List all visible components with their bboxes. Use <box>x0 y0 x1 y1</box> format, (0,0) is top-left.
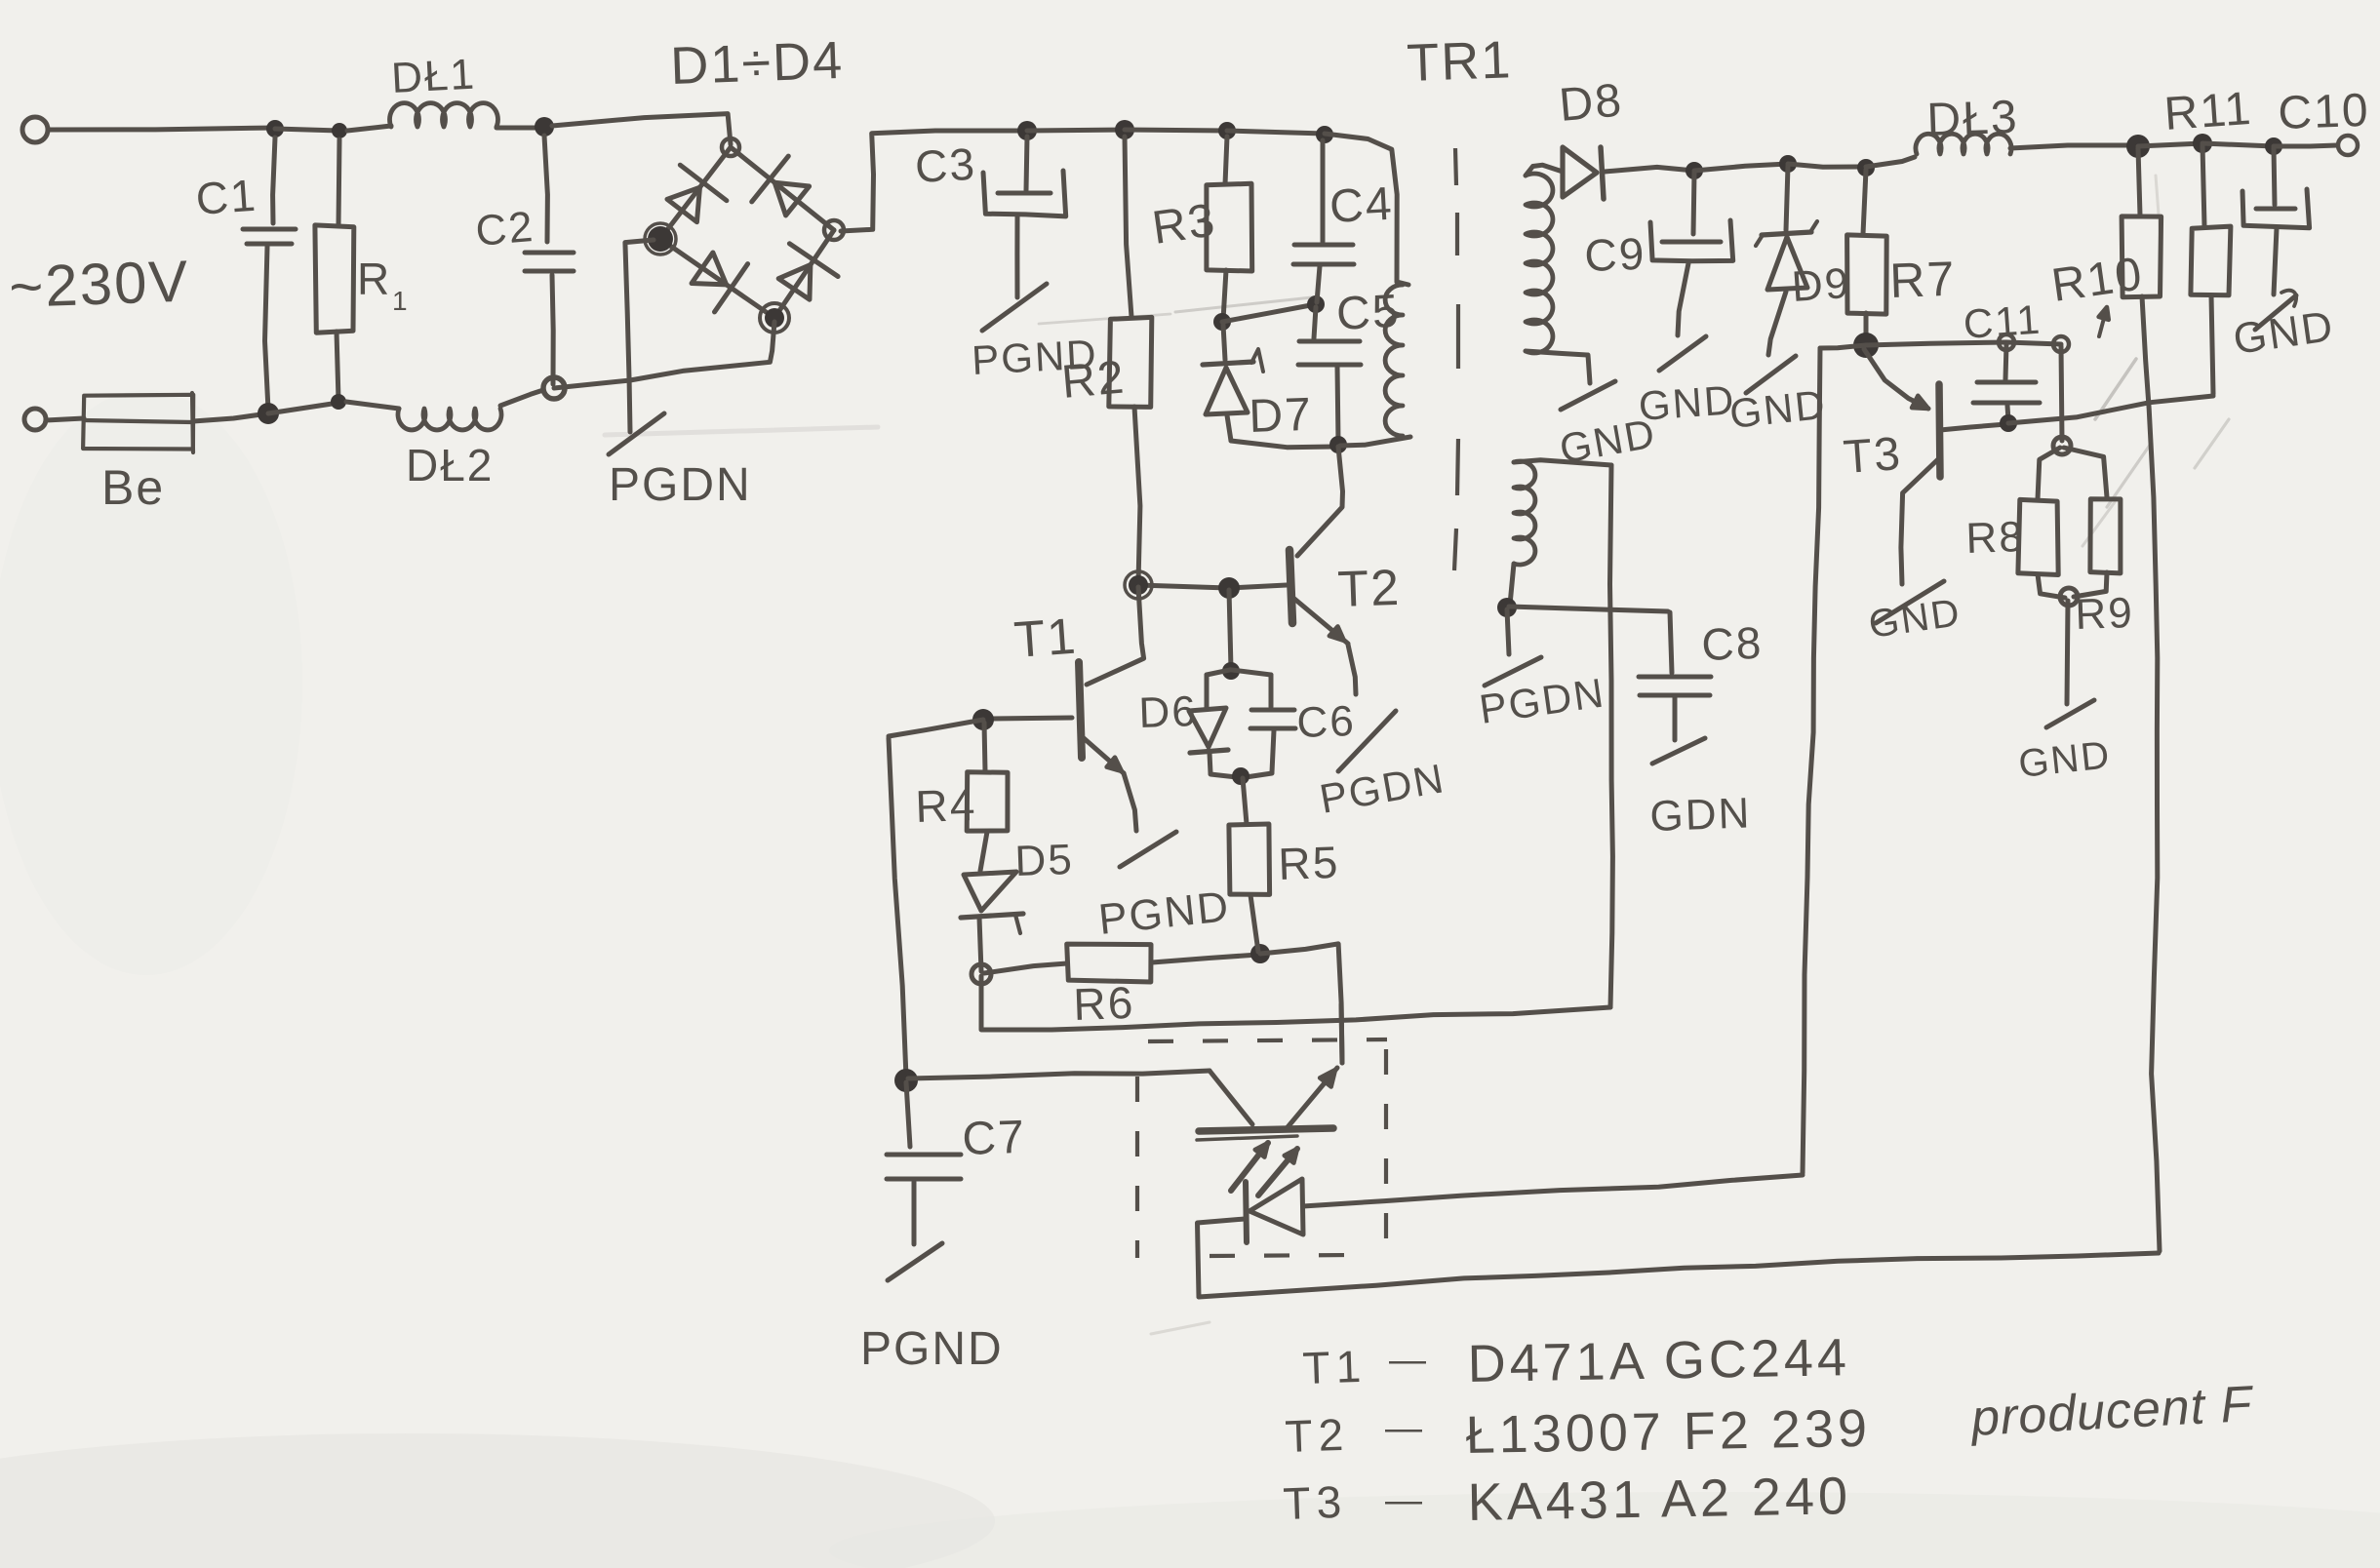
svg-text:C1: C1 <box>194 170 258 224</box>
capacitor C9 <box>1662 240 1721 245</box>
wire to DL2 <box>346 402 399 409</box>
diode D7 <box>1206 368 1248 414</box>
node C11 bottom <box>2000 414 2017 432</box>
wire node D to E <box>268 403 338 413</box>
wire D6C6 bottom bracket <box>1210 773 1272 778</box>
svg-text:TR1: TR1 <box>1406 30 1513 93</box>
ground PGDN T2 <box>1338 711 1396 771</box>
node I (R3) <box>1218 122 1236 139</box>
capacitor C5 <box>1299 339 1360 344</box>
resistor R2 lead top <box>1125 137 1131 317</box>
terminal input N <box>24 409 46 430</box>
optocoupler emitter arrow <box>1320 1070 1335 1087</box>
capacitor C2 <box>525 251 574 255</box>
diode D3 <box>692 253 727 285</box>
node G (C3) <box>1017 121 1037 140</box>
resistor R7 lead top <box>1863 170 1866 234</box>
wire lower bus to TR1 aux <box>981 1007 1610 1030</box>
node B (R1 top) <box>332 123 347 138</box>
wire bridge edge D1 <box>660 147 731 239</box>
wire D9 to R7 <box>1788 164 1866 167</box>
svg-text:R3: R3 <box>1149 194 1219 255</box>
svg-text:KA431 A2 240: KA431 A2 240 <box>1467 1467 1851 1532</box>
svg-text:C8: C8 <box>1701 617 1765 670</box>
resistor R7 <box>1847 235 1887 314</box>
capacitor C5 lead top <box>1314 307 1316 338</box>
wire T3 feedback left <box>1820 345 1866 348</box>
svg-text:GDN: GDN <box>1649 789 1752 841</box>
wire sec2 top <box>1514 460 1611 465</box>
transistor T3 ref lead <box>1940 424 2006 430</box>
ground PGND T1 <box>1120 832 1176 867</box>
capacitor C1 lead bottom <box>265 247 269 410</box>
capacitor C4 <box>1294 243 1353 248</box>
svg-text:C10: C10 <box>2278 85 2371 139</box>
capacitor C6 lead bottom <box>1272 730 1274 772</box>
svg-text:D8: D8 <box>1557 74 1625 131</box>
diode D7 lead bottom <box>1227 415 1231 441</box>
diode D6 cathode bar <box>1190 750 1228 753</box>
svg-text:D9: D9 <box>1790 259 1852 311</box>
ground PGDN bridge <box>609 413 664 454</box>
diode D5 lead bottom <box>979 918 981 971</box>
diode D6 lead top <box>1205 675 1210 708</box>
transistor T1 emitter arrow <box>1107 758 1122 771</box>
resistor R5 lead bottom <box>1250 895 1258 952</box>
node D (C1 bottom) <box>258 403 279 424</box>
svg-text:R4: R4 <box>915 779 978 832</box>
resistor R10 lead bottom long <box>2142 296 2160 1251</box>
svg-text:Ł13007 F2 239: Ł13007 F2 239 <box>1465 1399 1871 1465</box>
wire TR1 aux vertical <box>1610 465 1613 1007</box>
diode D7 cathode bar <box>1203 362 1253 365</box>
wire top bus A-B <box>275 129 339 131</box>
wire R7 to DL3 <box>1866 157 1915 167</box>
capacitor C7 lead bottom <box>912 1182 917 1244</box>
capacitor C10 lead bottom <box>2274 228 2277 294</box>
wire node X to opto <box>908 1071 1210 1078</box>
node U (R5 bottom) <box>1250 944 1270 963</box>
capacitor C6 <box>1251 708 1294 713</box>
svg-text:R5: R5 <box>1278 837 1341 889</box>
wire T1 base to left rail <box>889 720 983 736</box>
fuse Be <box>83 395 193 450</box>
node E (R1 bottom) <box>331 394 346 410</box>
wire node S to R6 <box>984 963 1067 973</box>
resistor R6 <box>1067 944 1151 982</box>
wire sec1 top to D8 <box>1526 165 1563 176</box>
diode D9 lead top <box>1786 166 1788 230</box>
inductor DL3 <box>1916 134 2011 154</box>
svg-text:DŁ1: DŁ1 <box>390 51 477 102</box>
transistor T2 collector <box>1297 447 1343 556</box>
wire fuse to node D <box>193 413 268 421</box>
inductor DL1 <box>390 103 498 127</box>
ground GND R9 <box>2046 700 2094 727</box>
capacitor C5 lead bottom <box>1337 367 1338 442</box>
node F (C2 bottom) <box>543 377 565 399</box>
svg-text:C6: C6 <box>1296 697 1357 747</box>
svg-text:R: R <box>357 254 391 304</box>
wire node S lower <box>979 976 984 1029</box>
capacitor C3 lead top <box>1026 137 1027 190</box>
resistor R11 <box>2191 226 2231 295</box>
svg-text:C4: C4 <box>1329 178 1395 233</box>
svg-text:C2: C2 <box>474 203 536 255</box>
svg-text:D5: D5 <box>1014 836 1075 885</box>
wire node U right corner <box>1260 944 1342 1063</box>
fuse Be right tick <box>192 393 193 452</box>
node divider top <box>2053 336 2069 352</box>
wire top bus left <box>48 128 275 130</box>
node W (D6C6 bottom) <box>1232 767 1249 785</box>
svg-text:DŁ2: DŁ2 <box>406 440 494 490</box>
svg-text:—: — <box>1389 1340 1428 1381</box>
transistor T1 emitter <box>1084 738 1124 773</box>
ground GDN C8 <box>1652 738 1705 764</box>
capacitor C8 <box>1639 675 1711 680</box>
wire opto collector lead <box>1210 1071 1252 1124</box>
diode D5 tick <box>1015 915 1020 933</box>
node S (D5 bottom) <box>972 964 991 984</box>
wire bridge edge D3 <box>660 239 774 318</box>
wire sec2 gnd tap <box>1507 609 1509 654</box>
resistor R11 lead top <box>2202 145 2204 226</box>
wire R11top-C10top <box>2202 143 2274 146</box>
node R7 bottom <box>1853 333 1879 358</box>
resistor R8 branch top <box>2038 448 2060 499</box>
resistor R4 <box>967 772 1008 831</box>
resistor R1 lead top <box>338 139 339 225</box>
optocoupler emitter <box>1288 1068 1337 1127</box>
transistor T3 cathode lead <box>1864 349 1928 409</box>
transformer TR1 secondary 1 <box>1526 174 1553 353</box>
diode D9 wing left <box>1756 235 1763 246</box>
wire to fuse <box>46 418 84 420</box>
diode D7 hook <box>1251 349 1263 372</box>
node R (T1 base) <box>972 709 994 730</box>
wire to DL1 <box>347 126 391 131</box>
capacitor C9 lead top <box>1693 173 1694 234</box>
resistor R10 <box>2122 216 2162 297</box>
diode D6 lead bottom <box>1210 753 1210 773</box>
svg-text:C3: C3 <box>914 138 977 192</box>
label R10 arrow <box>2099 307 2107 336</box>
diode D5 cathode bar <box>961 914 1023 918</box>
capacitor C6 lead top <box>1269 675 1274 707</box>
resistor R4 lead top <box>984 723 985 771</box>
diode D5 <box>964 872 1016 911</box>
svg-text:T1: T1 <box>1012 608 1080 669</box>
capacitor C2 lead bottom <box>552 275 553 384</box>
wire bridge right out <box>841 131 1027 231</box>
node K (C4) <box>1316 126 1333 143</box>
wire R6 to node U <box>1152 955 1258 962</box>
terminal input L <box>22 117 48 142</box>
wire C9 to D9 <box>1694 164 1788 171</box>
diode D1 <box>667 187 699 221</box>
capacitor C1 lead top <box>273 137 275 223</box>
transistor T2 base wire <box>1138 585 1287 588</box>
wire node L to M <box>1222 304 1316 322</box>
svg-text:T2: T2 <box>1336 560 1402 618</box>
terminal output + <box>2338 136 2358 155</box>
capacitor C10 lead top <box>2274 148 2275 205</box>
node L (R3-D7) <box>1213 313 1231 331</box>
transistor T1 collector <box>1087 587 1144 685</box>
resistor R9 branch top <box>2064 448 2107 497</box>
svg-text:T3: T3 <box>1283 1476 1348 1529</box>
node R10 top <box>2126 135 2150 158</box>
node bridge top <box>722 138 739 156</box>
resistor R9 branch bottom <box>2074 572 2107 597</box>
svg-text:T2: T2 <box>1285 1409 1350 1462</box>
svg-text:R8: R8 <box>1965 513 2026 563</box>
resistor R1 lead bottom <box>337 332 338 400</box>
capacitor C4 lead top <box>1321 140 1326 242</box>
transformer TR1 primary <box>1385 285 1403 436</box>
capacitor C8 lead bottom <box>1673 697 1678 740</box>
resistor R10 lead top <box>2138 148 2140 216</box>
node H (R2) <box>1115 120 1134 139</box>
svg-text:T1: T1 <box>1302 1341 1368 1393</box>
ground GND D9 <box>1746 356 1796 393</box>
svg-text:GND: GND <box>1637 376 1736 429</box>
resistor R3 lead top <box>1225 137 1227 184</box>
resistor R1 <box>315 225 354 333</box>
resistor R11 lead bottom <box>2211 295 2213 394</box>
node C10 top <box>2265 137 2282 155</box>
svg-text:—: — <box>1385 1480 1424 1521</box>
resistor R8 <box>2018 499 2058 574</box>
wire bridge edge D2 <box>731 147 834 230</box>
node A (C1 top) <box>266 120 284 137</box>
node P (R2-T1) <box>1129 575 1148 595</box>
svg-text:D7: D7 <box>1249 389 1314 443</box>
wire DL3 to node R10 <box>2010 145 2138 148</box>
optocoupler LED cathode wire <box>1198 1219 1246 1297</box>
svg-text:R6: R6 <box>1073 977 1136 1030</box>
svg-text:D6: D6 <box>1138 687 1199 737</box>
wire top T3 bus <box>1866 342 2006 345</box>
resistor R2 <box>1109 317 1152 407</box>
wire I-K <box>1227 131 1325 134</box>
wire R5 bus to opto <box>1341 1004 1342 1063</box>
wire bridge left to PGND <box>625 240 654 432</box>
wire T3 feedback vertical <box>1803 348 1820 1173</box>
node R8R9 top <box>2053 437 2071 454</box>
svg-text:—: — <box>1385 1408 1424 1449</box>
wire primary top join <box>1397 282 1408 285</box>
capacitor C1 <box>243 227 296 232</box>
capacitor C7 lead top <box>906 1082 910 1147</box>
ground GND C9 <box>1659 336 1706 371</box>
wire D7 to node N <box>1231 441 1334 448</box>
optocoupler LED anode wire <box>1303 1175 1803 1206</box>
node R11 top <box>2193 134 2212 153</box>
diode D2 <box>774 182 809 216</box>
resistor R8 branch bottom <box>2038 574 2065 598</box>
diode D9 cathode bar <box>1762 232 1811 235</box>
svg-text:PGND: PGND <box>860 1323 1004 1375</box>
wire H-I <box>1125 130 1227 131</box>
node bridge left <box>648 226 673 252</box>
resistor R9 <box>2090 499 2121 573</box>
wire T2 base to D6C6 <box>1229 590 1231 669</box>
wire DL1 to node C <box>496 126 535 131</box>
ground PGND C3 <box>982 284 1047 331</box>
svg-text:C7: C7 <box>962 1112 1027 1165</box>
transistor T1 base wire <box>991 718 1072 719</box>
resistor R2 lead bottom <box>1134 407 1140 583</box>
capacitor C3 lead bottom <box>1014 216 1019 297</box>
node M (C4-C5) <box>1307 295 1325 313</box>
capacitor C11 lead top <box>2005 344 2006 379</box>
wire C11top to divider <box>2006 342 2061 344</box>
fuse Be middle line <box>84 420 192 422</box>
svg-text:C11: C11 <box>1962 296 2043 347</box>
node D9 top <box>1779 155 1797 173</box>
transistor T2 bar <box>1289 550 1292 623</box>
wire D6C6 top bracket <box>1207 670 1271 675</box>
transistor T2 emitter arrow <box>1329 626 1344 641</box>
wire sec2 to C8 <box>1509 607 1668 611</box>
ground PGDN sec2 <box>1485 657 1541 686</box>
wire C10 to terminal <box>2274 145 2337 146</box>
capacitor C8 lead top <box>1670 612 1672 673</box>
capacitor C9 lead bottom <box>1678 263 1688 335</box>
wire bridge top feed <box>552 114 731 144</box>
optocoupler light arrow 2 <box>1258 1149 1297 1196</box>
node C11 top <box>1999 334 2014 350</box>
wire bridge bottom out <box>630 322 774 380</box>
diode D9 lead bottom <box>1768 292 1786 355</box>
ground GND sec1 <box>1561 381 1615 410</box>
wire D8 to node C9 <box>1605 167 1694 172</box>
optocoupler light arrow 1 <box>1231 1143 1268 1191</box>
capacitor C3 <box>998 191 1051 196</box>
svg-text:R2: R2 <box>1059 351 1128 408</box>
transistor T3 emitter <box>1901 458 1939 584</box>
optocoupler phototransistor bar <box>1199 1128 1333 1131</box>
node bridge right <box>824 220 844 240</box>
node Q (T2 base) <box>1218 577 1240 599</box>
wire node F to bridge bottom <box>554 380 630 388</box>
resistor R5 lead top <box>1243 778 1247 824</box>
diode D6 <box>1189 708 1226 747</box>
transformer TR1 core <box>1454 148 1458 570</box>
wire primary bottom join <box>1340 437 1410 446</box>
resistor R3 <box>1207 183 1252 271</box>
resistor R3 lead bottom <box>1223 270 1226 320</box>
svg-text:D471A GC244: D471A GC244 <box>1467 1328 1850 1393</box>
transistor T2 emitter <box>1294 599 1348 644</box>
inductor DL2 <box>398 409 501 430</box>
ground GND C10 hook <box>2281 291 2296 306</box>
resistor R7 lead bottom <box>1864 313 1869 342</box>
svg-text:DŁ3: DŁ3 <box>1926 92 2020 146</box>
diode D4 <box>778 265 811 300</box>
wire bridge edge D4 <box>774 230 834 318</box>
diode D9 wing right <box>1810 221 1817 232</box>
wire R8R9 to gnd <box>2067 601 2068 704</box>
capacitor C4 lead bottom <box>1317 266 1320 302</box>
wire ref bus <box>2008 396 2213 423</box>
wire DL2 to node F <box>500 390 543 406</box>
svg-text:~230V: ~230V <box>8 249 190 320</box>
capacitor C10 <box>2256 207 2295 212</box>
resistor R4 lead bottom <box>980 832 987 871</box>
wire sec1 gnd tick <box>1588 355 1590 383</box>
svg-text:PGDN: PGDN <box>609 459 752 511</box>
capacitor C2 lead top <box>544 136 547 242</box>
wire R10top-R11top <box>2138 143 2202 146</box>
capacitor C11 lead bottom <box>2007 406 2008 420</box>
svg-text:Be: Be <box>101 460 165 515</box>
node N (C5 bottom) <box>1329 436 1347 453</box>
node V (D6C6 top) <box>1222 662 1240 680</box>
wire K to primary <box>1325 134 1397 282</box>
ground GND C10 <box>2255 295 2296 330</box>
node sec2 bottom <box>1497 598 1517 617</box>
svg-text:D1÷D4: D1÷D4 <box>669 31 845 96</box>
svg-text:T3: T3 <box>1842 428 1904 484</box>
node X (C7) <box>894 1069 918 1092</box>
diode D7 lead top <box>1223 325 1225 360</box>
capacitor C7 <box>887 1153 961 1157</box>
diode D8 cathode bar <box>1601 147 1604 199</box>
capacitor C11 <box>1977 380 2036 385</box>
wire left rail down <box>889 738 906 1078</box>
optocoupler LED <box>1249 1179 1303 1235</box>
svg-text:C9: C9 <box>1584 228 1647 281</box>
svg-text:R11: R11 <box>2162 83 2254 140</box>
svg-text:R7: R7 <box>1888 252 1957 308</box>
ground PGND C7 <box>888 1243 942 1280</box>
node C9 top <box>1686 162 1703 179</box>
node C (C2 top) <box>535 117 554 137</box>
optocoupler box dashed <box>1137 1039 1387 1258</box>
optocoupler LED cathode bar <box>1246 1182 1247 1242</box>
resistor R5 <box>1229 824 1270 894</box>
svg-text:1: 1 <box>392 286 410 316</box>
transistor T3 bar <box>1939 384 1940 477</box>
node R7 top <box>1857 159 1875 176</box>
wire bottom return <box>1199 1253 2159 1297</box>
diode D8 <box>1563 147 1597 197</box>
transistor T1 bar <box>1079 662 1082 758</box>
wire sec2 bottom <box>1510 564 1514 605</box>
transformer TR1 secondary 2 <box>1514 461 1535 565</box>
node R8R9 bottom <box>2060 588 2078 606</box>
wire sec1 bottom <box>1526 351 1587 355</box>
wire G-H <box>1027 130 1125 131</box>
ground GND T3 <box>1876 581 1944 623</box>
diode D9 <box>1767 237 1807 290</box>
svg-text:R9: R9 <box>2075 589 2135 639</box>
transistor T3 cathode arrow <box>1912 396 1928 409</box>
wire divider vertical <box>2061 346 2062 441</box>
node bridge bottom <box>765 308 784 328</box>
